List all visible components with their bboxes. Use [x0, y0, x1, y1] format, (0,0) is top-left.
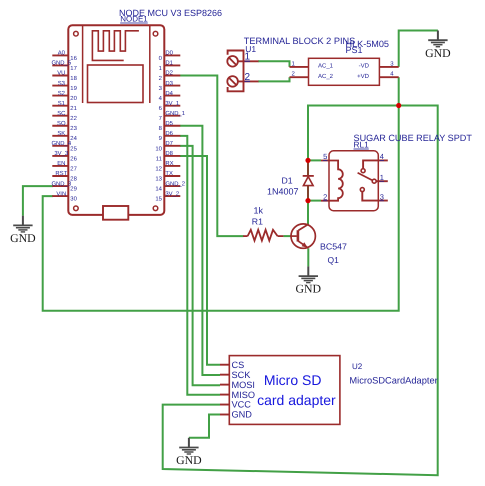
NODE1 pin 6 3V_1	[159, 100, 181, 112]
svg-text:Q1: Q1	[328, 255, 340, 265]
svg-text:PS1: PS1	[346, 45, 363, 55]
svg-text:22: 22	[70, 115, 77, 122]
svg-text:D1: D1	[282, 175, 293, 185]
wire U1 pin1 to PS1 AC_1	[258, 61, 290, 67]
wire PS1 -VD pin3 to GND	[399, 31, 438, 67]
svg-text:R1: R1	[252, 217, 263, 227]
NODE1 pin 14 GND_2	[155, 180, 185, 192]
svg-text:D8: D8	[165, 150, 173, 157]
svg-text:EN: EN	[57, 160, 65, 167]
svg-text:CS: CS	[232, 360, 245, 370]
wire junction down left up to NODE1 VIN	[43, 106, 399, 311]
NODE1 pin 25 GND_4	[51, 140, 77, 152]
svg-text:BC547: BC547	[320, 241, 347, 251]
svg-text:D5: D5	[165, 120, 173, 127]
svg-text:13: 13	[155, 175, 162, 182]
svg-text:D6: D6	[165, 130, 173, 137]
wire NODE1 D5 to U2 SCK	[180, 126, 220, 375]
svg-text:23: 23	[70, 125, 77, 132]
svg-text:D7: D7	[165, 140, 173, 147]
NODE1 pin 13 TX	[155, 170, 180, 182]
NODE1 pin 30 VIN	[52, 190, 77, 202]
svg-text:3V_2: 3V_2	[165, 190, 179, 197]
ground (PS1 -VD)	[425, 31, 451, 60]
svg-text:VCC: VCC	[232, 400, 252, 410]
svg-text:18: 18	[70, 75, 77, 82]
NODE1 pin 23 SO	[52, 120, 77, 132]
svg-text:1: 1	[159, 65, 162, 72]
NODE1 pin 17 GND_5	[51, 60, 76, 72]
svg-text:GND_5: GND_5	[51, 60, 71, 67]
svg-text:Micro SD: Micro SD	[264, 372, 322, 388]
svg-text:25: 25	[70, 145, 77, 152]
NODE1 pin 8 D5	[159, 120, 181, 132]
svg-text:7: 7	[159, 115, 162, 122]
wire node to relay pin2 stub	[308, 200, 321, 202]
power module PS1 HLK-5M05	[290, 58, 399, 85]
wire NODE1 D8 to U2 CS	[180, 156, 220, 365]
NODE1 pin 22 SC	[52, 110, 77, 122]
svg-text:SUGAR CUBE RELAY SPDT: SUGAR CUBE RELAY SPDT	[354, 133, 473, 143]
ground (NODE1 GND_3)	[10, 216, 36, 245]
svg-text:SO: SO	[57, 120, 66, 127]
svg-text:GND: GND	[425, 46, 451, 60]
svg-text:D3: D3	[165, 80, 173, 87]
svg-text:TX: TX	[165, 170, 173, 177]
svg-text:VIN: VIN	[56, 190, 66, 197]
svg-text:9: 9	[159, 135, 162, 142]
wire node to relay pin5 stub	[308, 159, 321, 161]
svg-text:MISO: MISO	[232, 390, 255, 400]
svg-text:5: 5	[323, 152, 327, 161]
svg-text:RST: RST	[55, 170, 67, 177]
svg-text:GND: GND	[176, 453, 202, 467]
svg-text:1k: 1k	[254, 205, 264, 215]
svg-text:1: 1	[380, 173, 384, 182]
svg-text:A0: A0	[58, 50, 66, 57]
SD module U2 MicroSDCardAdapter	[220, 356, 340, 425]
svg-text:AC_1: AC_1	[318, 63, 334, 70]
terminal block U1	[227, 51, 258, 92]
svg-text:NODE1: NODE1	[120, 15, 148, 24]
svg-text:1: 1	[245, 52, 251, 63]
svg-text:17: 17	[70, 65, 77, 72]
ground (U2 GND)	[176, 438, 202, 467]
svg-text:-VD: -VD	[359, 63, 370, 70]
transistor Q1 BC547	[290, 224, 315, 248]
svg-text:SC: SC	[57, 110, 66, 117]
wire PS1 +VD pin4 down to junction	[398, 77, 400, 105]
svg-text:VU: VU	[57, 70, 65, 77]
svg-text:RX: RX	[165, 160, 173, 167]
svg-text:D4: D4	[165, 90, 173, 97]
NODE1 pin 4 D4	[159, 90, 181, 102]
svg-text:MOSI: MOSI	[232, 380, 255, 390]
NODE1 pin 1 D1	[159, 60, 181, 72]
wire R1 to Q1 base	[283, 235, 291, 237]
svg-text:29: 29	[70, 185, 77, 192]
svg-text:GND: GND	[232, 410, 253, 420]
svg-text:GND_3: GND_3	[51, 180, 71, 187]
svg-text:3: 3	[380, 192, 384, 201]
resistor R1 1k	[243, 230, 283, 241]
svg-text:SK: SK	[57, 130, 65, 137]
svg-text:RL1: RL1	[354, 140, 370, 150]
svg-text:D2: D2	[165, 70, 173, 77]
junction relay pin5 / D1 cathode	[305, 158, 310, 163]
svg-text:3V_1: 3V_1	[165, 100, 179, 107]
svg-text:10: 10	[155, 145, 162, 152]
svg-text:GND_1: GND_1	[165, 110, 185, 117]
svg-text:16: 16	[70, 55, 77, 62]
wire U1 pin2 to PS1 AC_2	[258, 77, 290, 81]
svg-text:14: 14	[155, 185, 162, 192]
svg-text:28: 28	[70, 175, 77, 182]
svg-text:U2: U2	[352, 362, 363, 371]
svg-text:GND: GND	[10, 231, 36, 245]
svg-text:GND_4: GND_4	[51, 140, 71, 147]
NODE1 pin 3 D3	[159, 80, 181, 92]
svg-text:4: 4	[380, 152, 384, 161]
svg-text:1N4007: 1N4007	[267, 186, 299, 196]
junction +VD node	[396, 103, 401, 108]
NODE1 pin 10 D7	[155, 140, 180, 152]
svg-text:S2: S2	[58, 90, 65, 97]
NODE1 pin 24 SK	[52, 130, 77, 142]
svg-text:MicroSDCardAdapter: MicroSDCardAdapter	[349, 376, 437, 386]
NODE1 pin 19 S3	[52, 80, 77, 92]
svg-text:20: 20	[70, 95, 77, 102]
wire NODE1 GND_3 to ground	[23, 186, 53, 216]
svg-text:15: 15	[155, 196, 162, 203]
svg-text:S3: S3	[58, 80, 66, 87]
relay RL1 SPDT	[321, 151, 388, 211]
NODE1 pin 0 D0	[159, 50, 181, 62]
NODE1 pin 21 S1	[52, 100, 77, 112]
svg-text:11: 11	[156, 155, 162, 162]
svg-text:AC_2: AC_2	[318, 73, 334, 80]
svg-text:12: 12	[155, 165, 162, 172]
svg-text:TERMINAL BLOCK 2 PINS: TERMINAL BLOCK 2 PINS	[244, 36, 355, 46]
svg-text:GND_2: GND_2	[165, 180, 185, 187]
wire U2 GND pin to ground	[189, 415, 220, 438]
svg-text:D0: D0	[165, 50, 173, 57]
wire Q1 emitter to ground	[307, 248, 309, 266]
NODE1 pin 11 D8	[156, 150, 181, 162]
ground (Q1 emitter)	[296, 266, 322, 295]
wire NODE1 D2 to R1	[180, 76, 244, 237]
NODE1 pin 16 A0	[52, 50, 77, 62]
wire junction to relay coil pin5 node	[308, 106, 399, 161]
junction relay pin2 / D1 anode / Q1 collector	[305, 198, 310, 203]
NODE1 pin 27 EN	[52, 160, 77, 172]
svg-text:3V_3: 3V_3	[54, 150, 68, 157]
svg-text:30: 30	[70, 196, 77, 203]
svg-text:card adapter: card adapter	[257, 392, 336, 408]
NODE1 pin 18 VU	[52, 70, 77, 82]
svg-text:SCK: SCK	[232, 370, 252, 380]
NODE1 pin 7 GND_1	[159, 110, 185, 122]
NODE1 pin 28 RST	[52, 170, 77, 182]
NODE1 pin 12 RX	[155, 160, 180, 172]
wire NODE1 D6 to U2 MISO	[180, 136, 220, 395]
svg-text:24: 24	[70, 135, 77, 142]
svg-text:2: 2	[159, 75, 162, 82]
NODE1 pin 15 3V_2	[155, 190, 180, 202]
svg-text:26: 26	[70, 155, 77, 162]
svg-text:27: 27	[70, 165, 77, 172]
NODE1 pin 29 GND_3	[51, 180, 76, 192]
wire junction right down around to U2 VCC	[163, 106, 438, 476]
IC NODE1 NodeMCU V3 ESP8266 body	[68, 25, 164, 220]
svg-text:21: 21	[70, 105, 77, 112]
NODE1 pin 2 D2	[159, 70, 181, 82]
NODE1 pin 9 D6	[159, 130, 181, 142]
wire D1 anode node to Q1 collector	[307, 201, 309, 225]
svg-text:S1: S1	[58, 100, 65, 107]
svg-text:D1: D1	[165, 60, 173, 67]
diode D1 1N4007	[303, 162, 314, 199]
svg-text:GND: GND	[296, 282, 322, 296]
svg-text:2: 2	[245, 72, 251, 83]
svg-text:2: 2	[323, 192, 327, 201]
svg-text:+VD: +VD	[357, 73, 370, 80]
wire NODE1 D7 to U2 MOSI	[180, 146, 220, 385]
NODE1 pin 20 S2	[52, 90, 77, 102]
NODE1 pin 26 3V_3	[52, 150, 77, 162]
svg-text:19: 19	[70, 85, 77, 92]
